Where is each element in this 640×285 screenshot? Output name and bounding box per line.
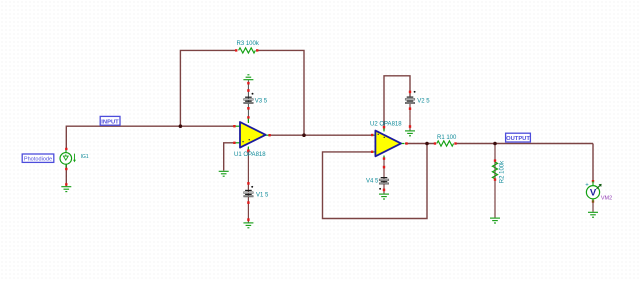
resistor R3 zigzag — [239, 48, 256, 53]
wire: U2 output net to R1 and right to output corner — [405, 143, 434, 145]
voltmeter VM2 — [585, 180, 601, 203]
ground under VM2 — [588, 212, 598, 217]
ground at U1 inverting input — [219, 171, 229, 176]
svg-text:+: + — [585, 183, 589, 189]
junction node: R2 branch — [493, 142, 497, 146]
ground under V4 — [379, 194, 389, 199]
battery V2 — [405, 97, 415, 104]
junction node: U1 output / feedback — [302, 133, 306, 137]
current source IG1 (photodiode) — [60, 148, 76, 186]
wire: feedback left vertical up from input net — [180, 50, 236, 126]
wire: IG1 bottom to ground — [65, 165, 67, 187]
wire: U1 output to U2 noninverting input — [269, 134, 373, 136]
wire: V2 battery to ground below — [409, 104, 411, 130]
svg-text:IG1: IG1 — [81, 154, 89, 160]
svg-text:INPUT: INPUT — [101, 119, 119, 125]
net label INPUT — [100, 116, 120, 125]
ground under IG1 — [61, 187, 71, 192]
resistor R2 zigzag (vertical) — [492, 162, 497, 179]
svg-text:OUTPUT: OUTPUT — [506, 136, 530, 142]
net label OUTPUT — [506, 133, 531, 142]
wire: U2 feedback loop around bottom — [323, 144, 428, 219]
battery V1 — [244, 190, 254, 197]
net label Photodiode — [22, 154, 54, 163]
wire: U1 inverting input to ground — [224, 143, 234, 171]
svg-text:U1 OPA818: U1 OPA818 — [234, 152, 266, 158]
wire: VM2 to ground — [592, 199, 594, 212]
ground above V3 (flipped) — [243, 75, 253, 80]
svg-text:R2 100k: R2 100k — [499, 160, 505, 183]
svg-text:V3 5: V3 5 — [255, 98, 268, 104]
svg-text:V2 5: V2 5 — [417, 98, 430, 104]
ground under R2 — [490, 218, 500, 223]
svg-text:R3 100k: R3 100k — [237, 41, 260, 47]
wire: output corner down to voltmeter VM2 — [592, 144, 594, 182]
svg-text:V: V — [590, 188, 597, 199]
junction node: input / feedback — [179, 124, 183, 128]
svg-text:Photodiode: Photodiode — [24, 157, 52, 163]
op-amp U2 — [371, 126, 408, 160]
op-amp U1 — [233, 116, 271, 152]
wire: feedback right segment from R3 down to U1 output net — [257, 50, 304, 135]
wire: V3 ground stem / battery column to U1 top supply pin — [247, 80, 249, 122]
ground under V2 — [405, 131, 415, 136]
svg-text:R1 100: R1 100 — [437, 135, 457, 141]
battery V3 — [244, 97, 254, 104]
svg-text:V1 5: V1 5 — [256, 192, 269, 198]
wire: IG1 top to U1 noninverting input (INPUT net) — [66, 126, 234, 150]
wire: U1 bottom supply pin through V1 to ground — [247, 148, 249, 223]
battery V4 — [379, 177, 389, 184]
svg-text:U2 OPA818: U2 OPA818 — [370, 122, 402, 128]
svg-text:V4 5: V4 5 — [366, 178, 379, 184]
ground under V1 — [243, 223, 253, 228]
svg-text:VM2: VM2 — [601, 196, 612, 202]
resistor R1 zigzag — [437, 141, 454, 146]
junction node: U2 output / loop — [425, 142, 429, 146]
wire: R2 branch down to ground — [494, 144, 496, 218]
wire: U2 top supply loop to V2 battery — [384, 76, 410, 131]
wire: U2 bottom supply pin to V4 battery and ground — [383, 156, 385, 193]
